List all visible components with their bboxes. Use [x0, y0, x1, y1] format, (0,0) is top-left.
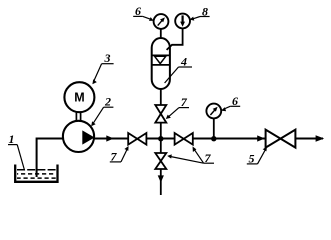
gauge G2 needle	[210, 110, 214, 115]
valve 5	[266, 130, 296, 148]
gauge G2 stub	[213, 118, 215, 139]
coupling motor-pump	[75, 112, 77, 122]
leader 1	[17, 145, 24, 171]
tank T1	[15, 165, 57, 182]
accumulator (4)	[152, 38, 170, 89]
suction pipe	[37, 139, 63, 178]
leader 7 left	[121, 150, 127, 162]
thermometer G3 (8)	[175, 14, 190, 29]
gauge G1 (6)	[154, 14, 169, 29]
leader 7 top	[169, 108, 179, 117]
drain line with arrow	[160, 169, 162, 195]
svg-text:5: 5	[249, 151, 255, 165]
thermometer G3 (8) pipe	[167, 28, 183, 50]
line accumulator to gauge G1	[160, 29, 162, 39]
flow arrow after pump	[106, 135, 114, 141]
leader 8	[193, 17, 200, 19]
leader 2	[94, 107, 104, 123]
accumulator gas triangle	[155, 56, 166, 63]
motor M (3)	[64, 82, 94, 112]
svg-text:M: M	[74, 91, 84, 105]
valve V2 (7)	[175, 133, 193, 145]
gauge G2 (6)	[206, 104, 221, 119]
thermometer stem	[182, 15, 184, 22]
valve V1 (7)	[128, 133, 146, 145]
leader 7 to V4	[171, 157, 204, 164]
line V2 to valve 5	[193, 138, 266, 140]
junction node gauge stub	[211, 136, 216, 141]
svg-text:2: 2	[104, 95, 111, 109]
riser junction to valve V3	[160, 123, 162, 139]
gauge G1 needle	[158, 21, 162, 26]
leader 6 top	[143, 16, 151, 19]
leader 5	[258, 150, 266, 164]
leader 6 right	[224, 106, 230, 109]
leader 4	[165, 67, 179, 83]
drop line junction to valve V4	[160, 139, 162, 154]
flow arrow before valve 5	[257, 135, 265, 141]
pump P (2)	[63, 121, 94, 152]
junction node center	[158, 136, 163, 141]
pump rotor triangle	[82, 130, 94, 144]
valve V3 (7, vertical)	[155, 105, 166, 123]
svg-text:3: 3	[104, 51, 111, 65]
leader 7 to V2	[195, 150, 204, 163]
line V3 to accumulator	[160, 88, 162, 105]
discharge line pump to valve V1	[95, 138, 129, 140]
line V1 to junction to V2	[146, 138, 174, 140]
outlet line	[295, 138, 323, 140]
accumulator band	[152, 54, 170, 56]
leader 3	[94, 64, 102, 81]
outlet arrow	[316, 135, 325, 142]
valve V4 (7, vertical)	[155, 153, 166, 169]
tank liquid	[17, 170, 56, 178]
